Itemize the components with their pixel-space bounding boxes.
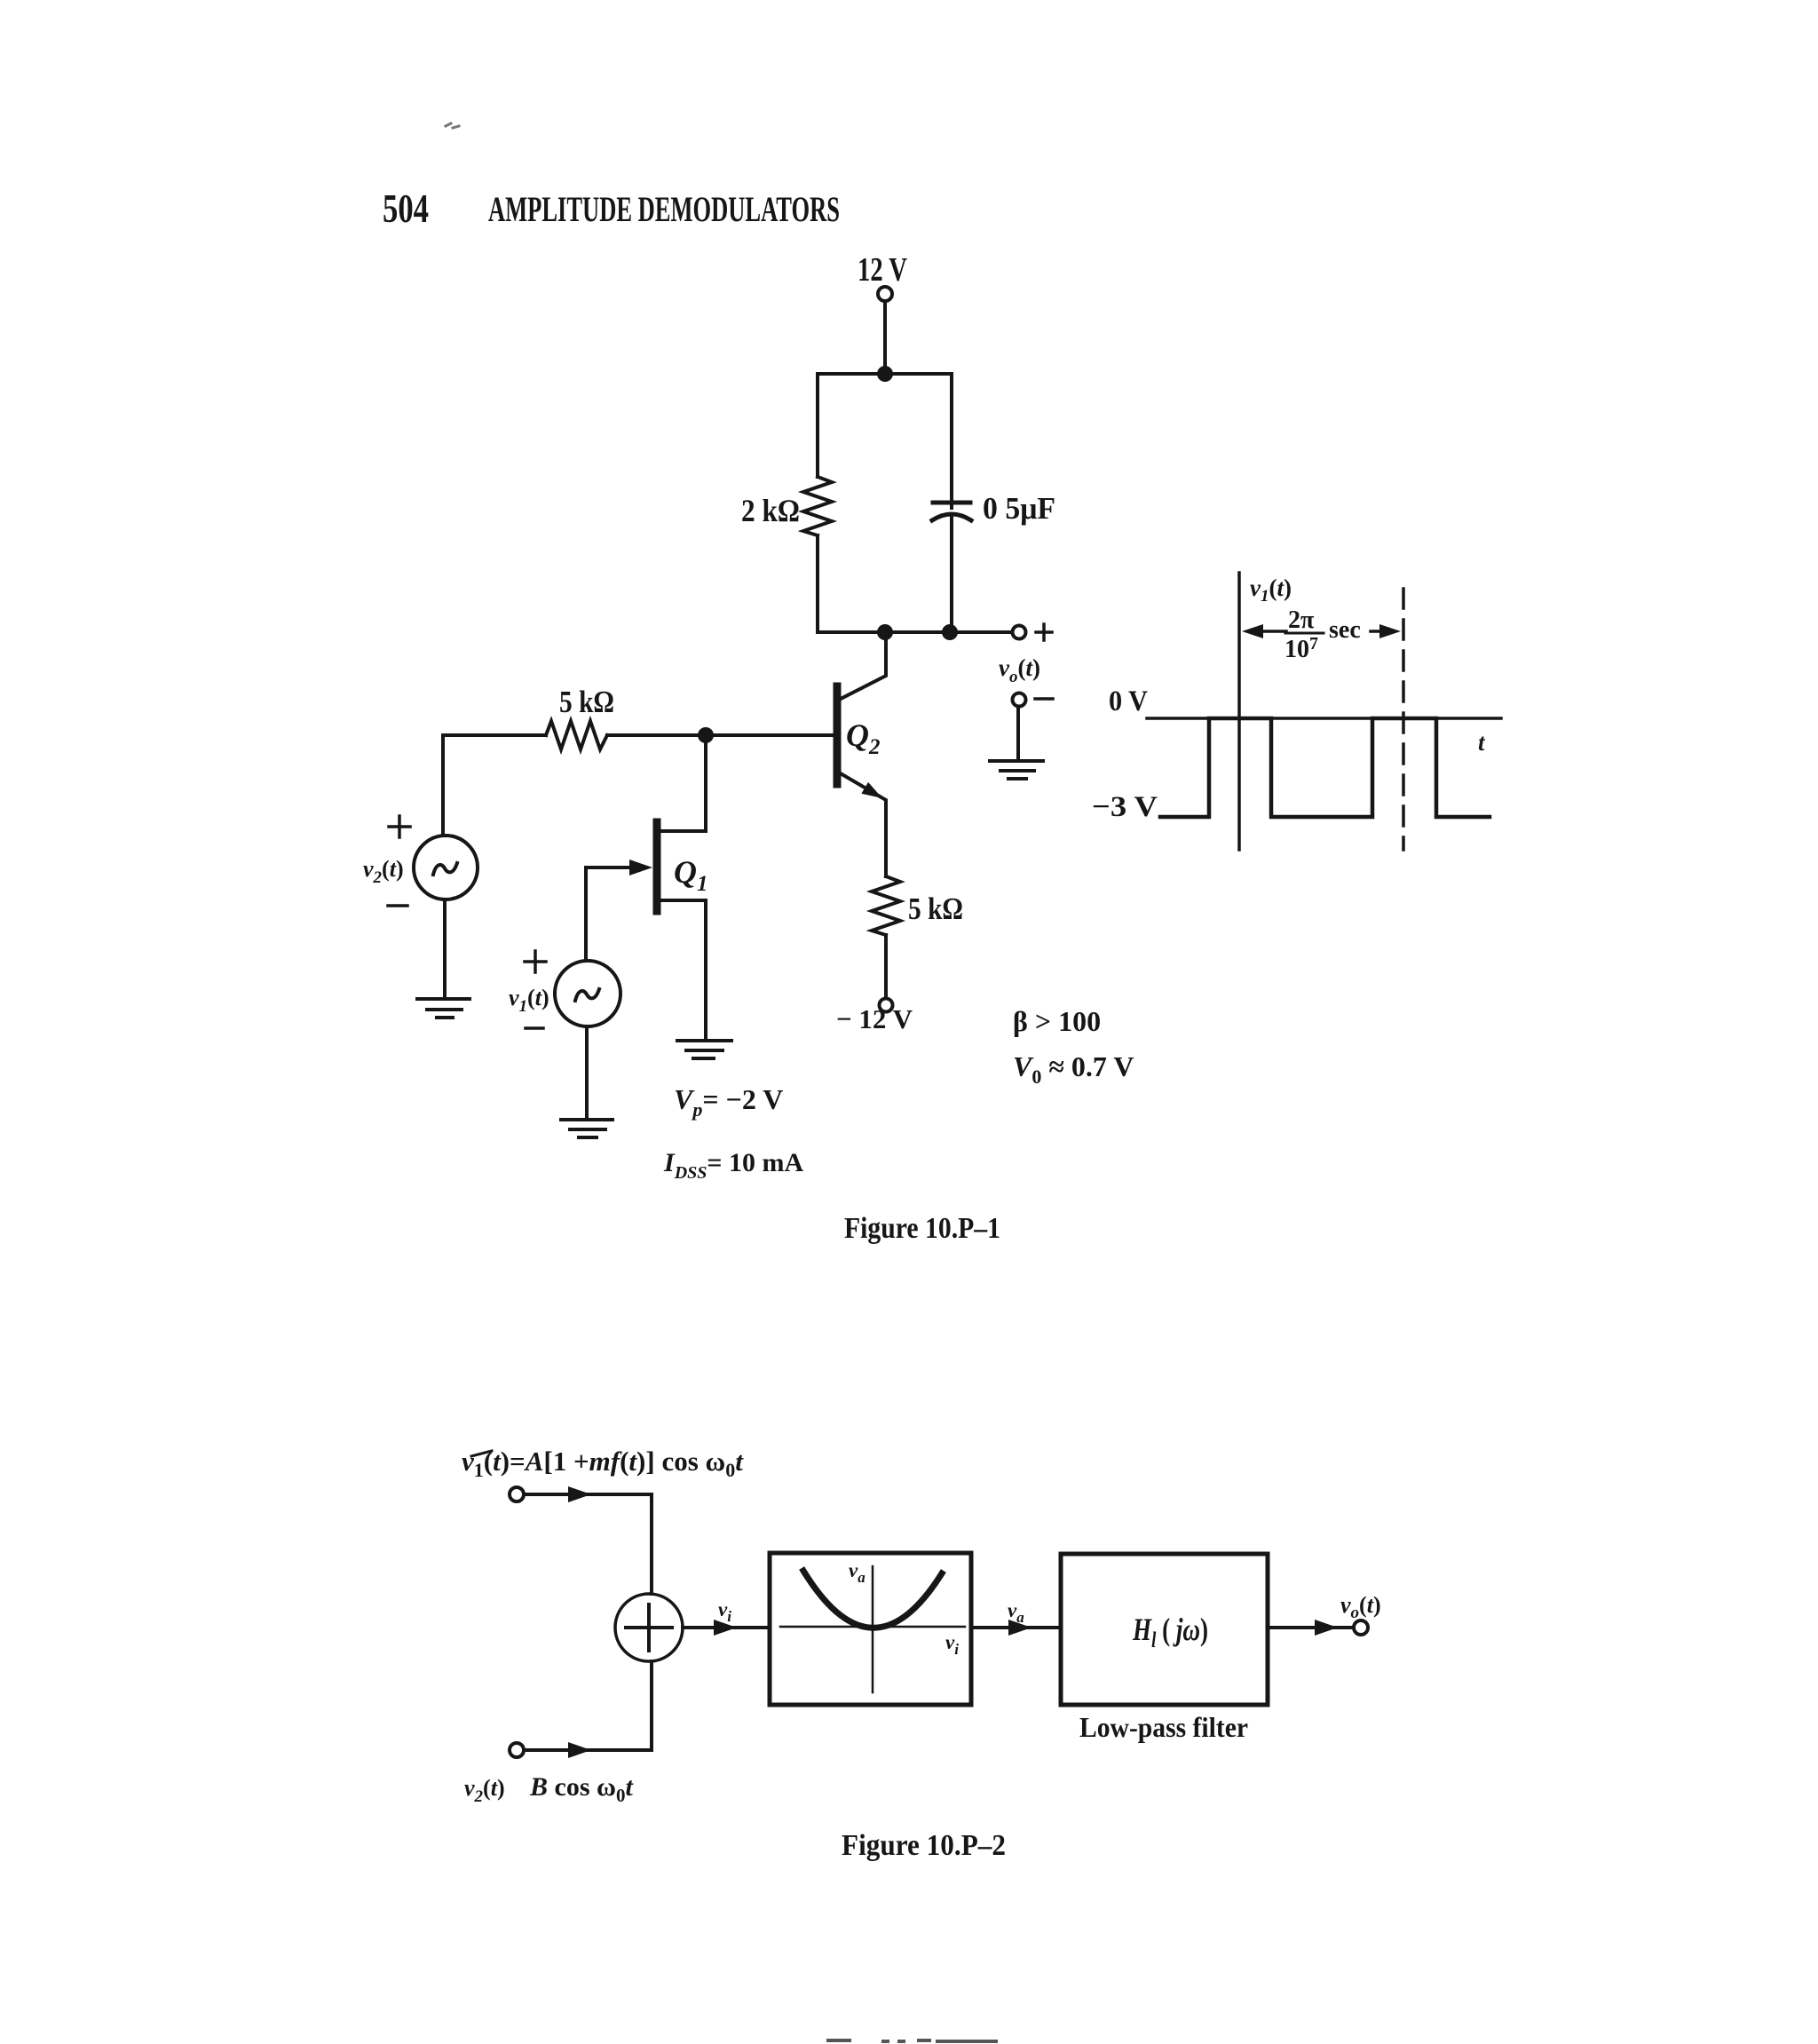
resistor R 2k bbox=[803, 477, 832, 535]
svg-text:sec: sec bbox=[1329, 616, 1361, 644]
svg-text:2 kΩ: 2 kΩ bbox=[741, 493, 800, 528]
input terminal v2 fig2 bbox=[510, 1743, 524, 1757]
ground Q1 bbox=[677, 1041, 731, 1058]
transistor Q2 bar bbox=[834, 686, 842, 784]
wire v1 bottom bbox=[585, 1026, 589, 1120]
svg-text:v1(t): v1(t) bbox=[1250, 574, 1292, 606]
waveform dashed line bbox=[1402, 589, 1405, 850]
svg-text:Figure 10.P–1: Figure 10.P–1 bbox=[844, 1212, 1000, 1245]
source v2 circle bbox=[414, 836, 478, 899]
wire summer to nonlinearity bbox=[683, 1626, 770, 1629]
output terminal plus bbox=[1013, 626, 1026, 639]
svg-text:β > 100: β > 100 bbox=[1013, 1005, 1101, 1037]
input terminal v1 fig2 bbox=[510, 1487, 524, 1501]
wire vo terminal to ground bbox=[1016, 707, 1020, 761]
Q1 gate arrow bbox=[629, 860, 652, 875]
source v1 circle bbox=[555, 961, 620, 1026]
svg-text:IDSS= 10 mA: IDSS= 10 mA bbox=[663, 1148, 803, 1183]
period arrow left bbox=[1259, 630, 1286, 633]
NL vertical axis bbox=[872, 1566, 874, 1692]
svg-text:504: 504 bbox=[383, 186, 429, 231]
svg-text:V0 ≈ 0.7 V: V0 ≈ 0.7 V bbox=[1013, 1050, 1134, 1088]
ground v2 bbox=[417, 999, 470, 1018]
wire RE to -12V terminal bbox=[884, 935, 888, 998]
wire resistor branch lower bbox=[816, 535, 819, 632]
svg-text:0 V: 0 V bbox=[1109, 685, 1148, 717]
svg-text:12 V: 12 V bbox=[858, 251, 907, 289]
bottom rail wire bbox=[818, 630, 1012, 634]
Q2 emitter arrow bbox=[861, 782, 885, 804]
wire v2 to 5k resistor bbox=[443, 733, 546, 737]
junction base node bbox=[698, 727, 714, 743]
svg-text:Hl ( jω): Hl ( jω) bbox=[1132, 1612, 1208, 1652]
bottom scan marks bbox=[828, 2040, 996, 2041]
v1 minus bbox=[526, 1026, 543, 1030]
H lowpass box bbox=[1061, 1554, 1268, 1705]
Q2 collector bbox=[839, 632, 886, 700]
svg-text:0 5μF: 0 5μF bbox=[983, 491, 1055, 526]
svg-text:vi: vi bbox=[945, 1631, 959, 1658]
wire base node down to drain bbox=[704, 735, 707, 831]
ground vo bbox=[990, 761, 1043, 779]
resistor RE 5k bbox=[872, 876, 900, 935]
-12 V terminal bbox=[880, 999, 893, 1012]
JFET Q1 drain wire bbox=[660, 829, 706, 833]
v1 plus bbox=[525, 951, 546, 972]
svg-text:vo(t): vo(t) bbox=[1340, 1592, 1381, 1622]
svg-text:vo(t): vo(t) bbox=[999, 654, 1040, 686]
svg-text:107: 107 bbox=[1284, 634, 1318, 663]
svg-text:v1(t)=A[1 +mf(t)] cos ω0t: v1(t)=A[1 +mf(t)] cos ω0t bbox=[462, 1446, 744, 1481]
wire nonlinearity to H box bbox=[971, 1626, 1061, 1629]
svg-text:Vp= −2 V: Vp= −2 V bbox=[674, 1083, 783, 1121]
svg-text:Q2: Q2 bbox=[846, 717, 881, 759]
wire 12V down to top rail bbox=[883, 301, 887, 374]
wire v1 top to gate bbox=[584, 868, 588, 961]
plus sign output bbox=[1036, 624, 1052, 640]
NL parabola bbox=[803, 1571, 942, 1628]
svg-text:va: va bbox=[849, 1559, 866, 1586]
svg-text:B cos ω0t: B cos ω0t bbox=[529, 1772, 634, 1806]
ground v1 bbox=[561, 1120, 613, 1137]
Q2 base wire bbox=[706, 733, 834, 737]
svg-text:AMPLITUDE DEMODULATORS: AMPLITUDE DEMODULATORS bbox=[488, 189, 840, 229]
Q1 gate wire bbox=[586, 866, 632, 869]
junction capacitor node bbox=[942, 624, 958, 640]
12 V supply terminal bbox=[878, 287, 892, 301]
svg-text:vi: vi bbox=[718, 1598, 731, 1625]
minus sign output bbox=[1035, 697, 1053, 701]
smudge mark top bbox=[446, 123, 459, 128]
v1 sine mark bbox=[575, 989, 599, 1001]
wire capacitor branch upper bbox=[950, 374, 953, 508]
junction collector node bbox=[877, 624, 893, 640]
svg-text:Figure 10.P–2: Figure 10.P–2 bbox=[842, 1829, 1006, 1862]
svg-text:v1(t): v1(t) bbox=[509, 985, 549, 1016]
JFET Q1 channel bar bbox=[653, 822, 661, 911]
svg-text:Q1: Q1 bbox=[674, 854, 708, 896]
arrow v1 input bbox=[568, 1486, 591, 1502]
output terminal minus bbox=[1013, 693, 1026, 707]
arrow v2 input bbox=[568, 1742, 591, 1758]
svg-text:− 12 V: − 12 V bbox=[836, 1003, 913, 1034]
wire v2 input fig2 bbox=[524, 1661, 652, 1750]
svg-text:v2(t): v2(t) bbox=[464, 1775, 505, 1806]
svg-text:2π: 2π bbox=[1288, 606, 1315, 634]
svg-text:5 kΩ: 5 kΩ bbox=[908, 891, 963, 926]
Q2 emitter bbox=[839, 772, 886, 876]
junction top rail node bbox=[877, 366, 893, 382]
svg-text:5 kΩ: 5 kΩ bbox=[559, 685, 614, 719]
NL horizontal axis bbox=[780, 1626, 965, 1628]
wire resistor branch upper bbox=[816, 374, 819, 477]
Q1 source wire bbox=[660, 899, 706, 902]
v2 plus bbox=[389, 816, 410, 837]
wire v1 input fig2 bbox=[524, 1494, 652, 1594]
svg-text:t: t bbox=[1478, 729, 1486, 756]
svg-text:−3 V: −3 V bbox=[1092, 791, 1158, 823]
wire 5k resistor to base node bbox=[607, 733, 706, 737]
v2 minus bbox=[388, 904, 407, 907]
capacitor C 0.5uF bbox=[933, 501, 970, 505]
waveform vertical axis bbox=[1237, 573, 1241, 850]
period arrow right bbox=[1371, 630, 1387, 633]
summer plus bbox=[626, 1604, 672, 1651]
square wave bbox=[1160, 718, 1490, 817]
svg-text:Low-pass filter: Low-pass filter bbox=[1079, 1711, 1248, 1743]
arrow output fig2 bbox=[1315, 1620, 1338, 1636]
arrow summer output bbox=[714, 1620, 737, 1636]
top rail wire bbox=[818, 372, 952, 376]
nonlinearity box bbox=[770, 1553, 971, 1705]
v1 equation overbar mark bbox=[471, 1451, 492, 1456]
v2 sine mark bbox=[433, 863, 457, 875]
wire H to output bbox=[1268, 1626, 1354, 1629]
resistor RB 5k input bbox=[546, 721, 607, 749]
output terminal fig2 bbox=[1354, 1620, 1368, 1635]
wire v2 top bbox=[441, 735, 445, 836]
wire v2 bottom bbox=[443, 899, 447, 999]
summer circle bbox=[615, 1594, 683, 1661]
svg-text:v2(t): v2(t) bbox=[363, 856, 404, 887]
arrow NL output bbox=[1008, 1620, 1032, 1636]
wire capacitor branch lower bbox=[950, 515, 953, 632]
0V axis line bbox=[1147, 717, 1501, 720]
wire source node down to ground bbox=[704, 900, 707, 1041]
